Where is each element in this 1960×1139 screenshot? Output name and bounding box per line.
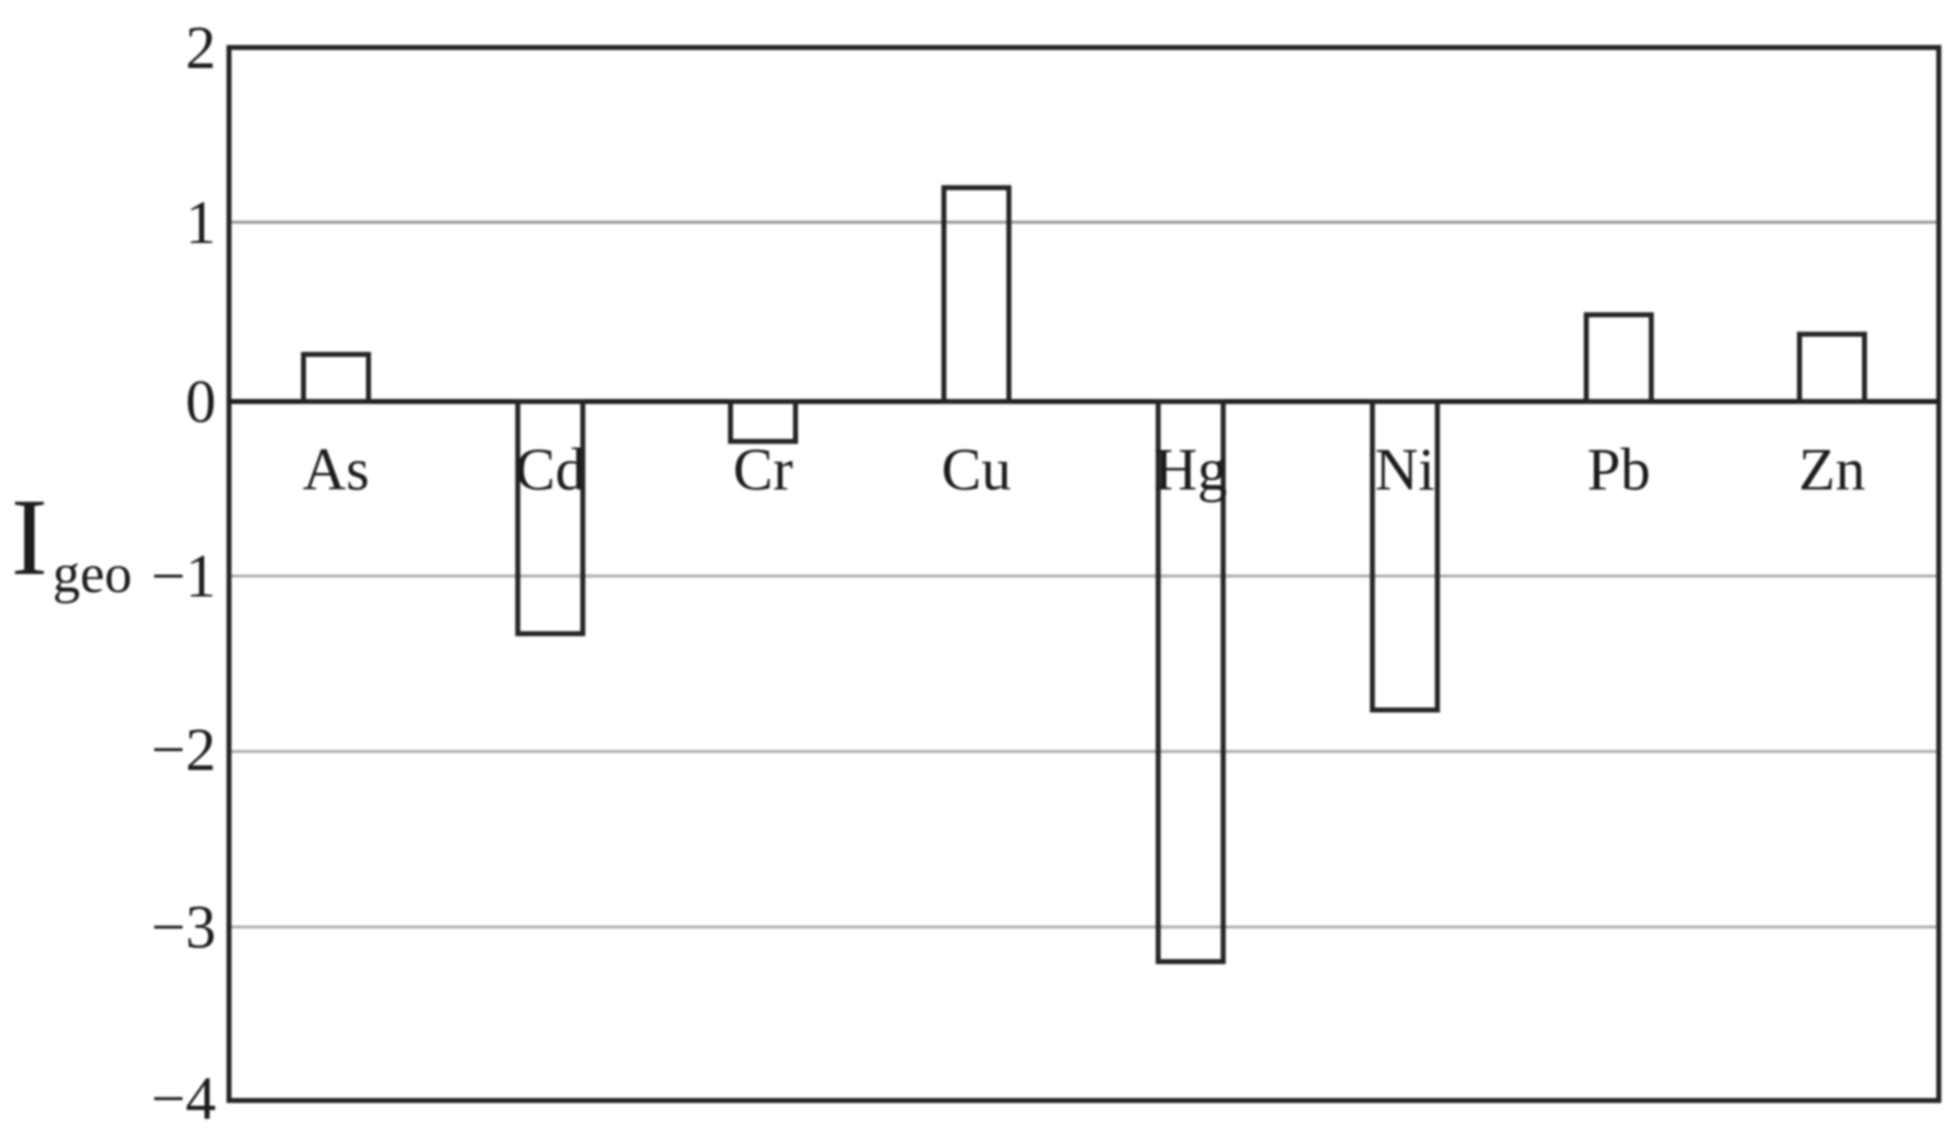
gridline y=-2 [232, 750, 1937, 753]
bar As [304, 354, 369, 401]
bar Cd [518, 402, 583, 634]
bar Hg [1158, 402, 1223, 962]
zero axis line [229, 399, 1939, 404]
svg-text:2: 2 [186, 15, 217, 82]
bar Cu [944, 188, 1009, 402]
bar Cr [731, 402, 796, 442]
gridline y=1 [232, 221, 1937, 224]
svg-text:Pb: Pb [1587, 437, 1650, 503]
gridline y=-3 [232, 926, 1937, 929]
bar Zn [1800, 334, 1865, 401]
svg-text:As: As [303, 437, 370, 503]
bar Pb [1586, 315, 1651, 402]
svg-text:−3: −3 [151, 895, 216, 962]
svg-text:Zn: Zn [1799, 437, 1866, 503]
svg-text:Cd: Cd [515, 437, 585, 503]
svg-text:Cr: Cr [733, 437, 793, 503]
svg-text:Ni: Ni [1375, 437, 1435, 503]
svg-text:Hg: Hg [1154, 437, 1227, 503]
svg-text:−1: −1 [151, 544, 216, 611]
svg-text:Cu: Cu [941, 437, 1011, 503]
svg-text:−2: −2 [151, 717, 216, 784]
svg-text:−4: −4 [151, 1066, 216, 1133]
bar Ni [1372, 402, 1437, 711]
gridline y=-1 [232, 575, 1937, 578]
svg-text:1: 1 [186, 190, 217, 257]
svg-text:0: 0 [186, 369, 217, 436]
